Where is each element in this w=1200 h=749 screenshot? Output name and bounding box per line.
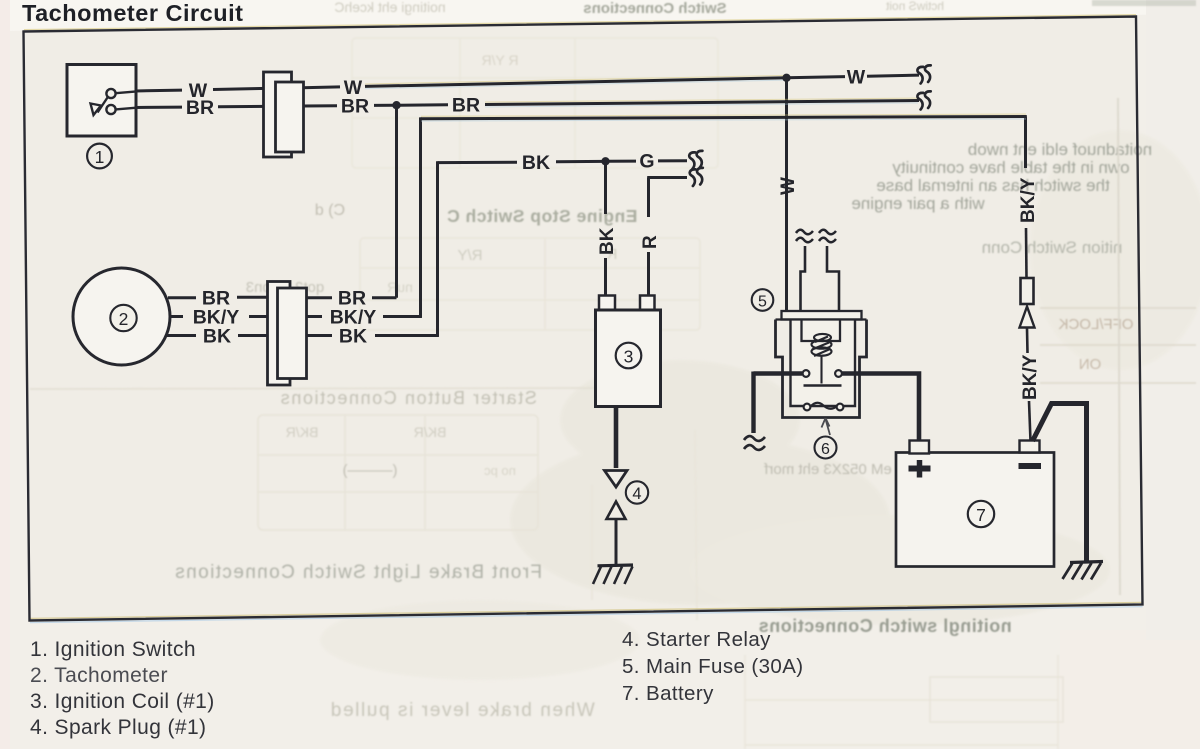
plus symbol <box>909 460 931 478</box>
svg-text:G: G <box>639 151 654 173</box>
ignition switch contacts and lever <box>91 89 136 115</box>
svg-text:W: W <box>778 177 799 195</box>
wire BK vertical riser <box>436 161 439 336</box>
svg-text:no pc: no pc <box>484 463 516 478</box>
svg-text:the switch has an internal bas: the switch has an internal base <box>876 176 1109 195</box>
wire BK horizontal to label <box>438 161 518 164</box>
ground symbol (battery) <box>1063 562 1104 580</box>
wire R stub to break <box>647 176 687 179</box>
wire labels (horizontal) <box>186 67 866 175</box>
svg-text:Engine Stop Switch C: Engine Stop Switch C <box>447 206 638 226</box>
svg-text:4. Spark Plug (#1): 4. Spark Plug (#1) <box>30 716 206 739</box>
svg-text:BK: BK <box>597 227 618 255</box>
wire W: switch to connector <box>135 89 182 93</box>
wire BK tach left <box>165 334 196 337</box>
arrow to circled 6 <box>826 419 831 435</box>
wire BK/Y tach left <box>170 315 183 318</box>
wire BR: label to connector <box>218 105 266 108</box>
wire plug to ground <box>615 519 618 566</box>
fuse on BK/Y line <box>1021 278 1034 304</box>
main fuse leads <box>801 246 840 311</box>
relay right wire (thick) to battery + <box>842 374 919 442</box>
right-side ghost paragraph <box>851 140 1152 213</box>
circled 7 <box>968 501 994 527</box>
wire BR: connector to label <box>302 104 337 107</box>
wire label to fuse <box>1025 228 1028 278</box>
legend right column <box>622 628 804 705</box>
svg-text:4. Starter Relay: 4. Starter Relay <box>622 628 771 651</box>
spark plug arrow (open, down) <box>605 471 628 488</box>
wire W: label to break <box>867 75 919 76</box>
svg-text:4: 4 <box>632 485 641 503</box>
svg-text:BK/R: BK/R <box>286 424 319 440</box>
ground symbol (spark plug) <box>593 565 633 584</box>
break symbol on BR wire <box>917 91 930 109</box>
battery body <box>896 453 1054 567</box>
spark plug arrow (open, up) <box>607 502 626 520</box>
wire BR tach left <box>168 296 196 299</box>
relay inner box <box>791 320 856 407</box>
battery - terminal <box>1020 441 1040 453</box>
svg-text:1. Ignition Switch: 1. Ignition Switch <box>30 638 196 661</box>
svg-text:OFF/LOCK: OFF/LOCK <box>1058 316 1133 333</box>
dark ghost blob <box>758 616 1012 636</box>
EX250 ghost near battery <box>763 461 891 478</box>
relay housing outline <box>776 320 867 418</box>
chromatic fringe on long wires <box>365 75 1026 121</box>
svg-text:7. Battery: 7. Battery <box>622 682 714 705</box>
tach wire labels <box>193 288 377 348</box>
Front Brake Light Switch Connections ghost <box>174 562 542 583</box>
svg-text:R/Y: R/Y <box>457 247 482 264</box>
spark plug lead (thick) <box>614 407 619 469</box>
svg-text:noitingi eht kcehC: noitingi eht kcehC <box>334 0 445 15</box>
ignition coil terminals <box>599 296 655 311</box>
arrow (open, up) on BK/Y line <box>1020 307 1035 328</box>
relay lower contact curve <box>811 403 837 409</box>
svg-text:BR: BR <box>452 95 480 117</box>
tach wires left side <box>165 297 332 335</box>
When brake lever is pulled ghost <box>329 700 595 721</box>
wire BK from tach connector <box>375 334 439 337</box>
break symbol on G wire <box>689 151 702 169</box>
svg-text:R Y/R: R Y/R <box>481 52 518 68</box>
wire G: junction to label <box>608 160 636 163</box>
svg-text:hctiwS noit: hctiwS noit <box>885 0 944 13</box>
wire W: label gap to connector <box>213 88 266 89</box>
wire BK/Y vertical riser <box>419 117 422 317</box>
circled 2 <box>110 305 136 331</box>
wire W: junction to label <box>787 77 846 78</box>
wire BK tach right stub <box>305 334 332 337</box>
svg-text:Tachometer Circuit: Tachometer Circuit <box>22 0 243 26</box>
svg-text:nuR: nuR <box>387 279 413 295</box>
svg-text:BK: BK <box>339 326 367 348</box>
svg-text:own in the table have continui: own in the table have continuity <box>892 158 1130 177</box>
svg-text:BK/Y: BK/Y <box>1018 177 1039 223</box>
junction dot on BK/G line <box>601 157 609 165</box>
main fuse cap plate <box>782 311 862 320</box>
svg-text:with a pair engine: with a pair engine <box>851 194 985 213</box>
svg-text:BK: BK <box>203 326 231 348</box>
svg-text:3. Ignition Coil (#1): 3. Ignition Coil (#1) <box>30 690 215 713</box>
svg-text:BR: BR <box>186 97 214 119</box>
wire BK label to junction <box>556 160 603 163</box>
svg-text:ON: ON <box>1079 356 1102 373</box>
svg-text:noitingl switch Connections: noitingl switch Connections <box>758 616 1012 636</box>
svg-text:2: 2 <box>119 309 129 329</box>
wire W: connector to label <box>302 85 340 89</box>
relay contact bar <box>804 384 842 387</box>
svg-text:nition Switch Conn: nition Switch Conn <box>982 238 1123 257</box>
wire W: long run to junction <box>365 78 787 87</box>
relay contacts upper <box>803 370 810 377</box>
svg-text:6: 6 <box>821 441 830 458</box>
chassis tilde below left wire <box>744 436 765 450</box>
ghost table 2 below it <box>360 238 700 330</box>
ignition switch connections ghost header right <box>982 238 1123 257</box>
svg-text:7: 7 <box>976 505 986 525</box>
wire BK/Y long horizontal run <box>421 117 1027 119</box>
svg-text:BK/R: BK/R <box>414 424 447 440</box>
Starter Button Connections ghost + table <box>279 388 537 408</box>
vertical ghost line (reverse page frame) <box>1118 98 1120 595</box>
ignition switch box <box>67 65 136 137</box>
Engine Stop Switch Connections header ghost <box>447 206 638 226</box>
svg-text:3: 3 <box>624 347 634 367</box>
wire BK/Y tach right stub <box>305 315 322 318</box>
minus symbol <box>1019 463 1042 469</box>
wire label gap to battery minus <box>1029 401 1031 441</box>
break symbol on R wire <box>690 168 703 186</box>
wire BR: switch to label <box>135 106 182 109</box>
rotated wire labels <box>597 177 1041 400</box>
junction dot on W line <box>782 74 790 82</box>
battery + terminal <box>910 441 930 454</box>
break symbol on W wire <box>917 65 930 83</box>
svg-text:noitadnuof eldi eht nwob: noitadnuof eldi eht nwob <box>968 140 1152 159</box>
svg-text:C) d: C) d <box>315 202 345 219</box>
circled 5 <box>752 289 774 311</box>
chromatic fringe on frame <box>24 15 1143 623</box>
connector 1 (ignition switch harness) <box>264 72 304 157</box>
svg-text:5: 5 <box>758 294 767 311</box>
circled 4 <box>626 481 648 503</box>
battery minus wire to ground (thick) <box>1033 404 1087 563</box>
svg-text:W: W <box>847 67 866 89</box>
svg-text:Switch Connections: Switch Connections <box>583 0 726 17</box>
wire BR: label to break <box>485 101 919 105</box>
wire W vertical drop to main fuse <box>785 78 788 312</box>
wire BK/Y drop at right <box>1024 117 1027 169</box>
wire BR horizontal into tach connector <box>372 296 397 299</box>
circled 3 <box>616 343 642 369</box>
main fuse lead tildes (left) <box>796 230 836 243</box>
wire BR tach right stub <box>305 296 332 299</box>
wire arrow down <box>1026 329 1029 354</box>
circled 1 <box>87 144 112 169</box>
fuse element spring <box>812 334 832 384</box>
relay contacts lower <box>804 404 811 411</box>
ignition coil U3 body <box>596 310 661 407</box>
wire BK vertical resume to coil terminal <box>604 258 607 297</box>
svg-text:When brake lever is pulled: When brake lever is pulled <box>329 700 595 721</box>
junction dot on BR line <box>392 101 400 109</box>
svg-text:5. Main Fuse (30A): 5. Main Fuse (30A) <box>622 655 804 678</box>
faint upper-left ghost table <box>352 38 718 168</box>
svg-text:BK/Y: BK/Y <box>1020 354 1041 400</box>
frame border <box>24 17 1143 621</box>
wire BR: label to junction <box>374 104 394 107</box>
legend left column <box>30 638 215 739</box>
svg-text:(———): (———) <box>343 462 398 479</box>
svg-text:Starter Button Connections: Starter Button Connections <box>279 388 537 408</box>
wire G: label to break <box>658 159 687 162</box>
svg-text:1: 1 <box>95 147 105 167</box>
bottom-right ghost table <box>592 430 1063 749</box>
wire R vertical to label <box>647 178 650 218</box>
wire R vertical resume to coil terminal <box>647 252 650 297</box>
wire BR: junction to label <box>399 103 448 106</box>
top edge cut-off ghost fragments <box>334 0 445 15</box>
svg-text:2. Tachometer: 2. Tachometer <box>30 664 168 687</box>
wire BR vertical drop from junction <box>395 105 398 298</box>
fuse chamber <box>802 320 841 342</box>
svg-text:eM 052X3 eht morf: eM 052X3 eht morf <box>763 461 891 478</box>
wire BK/Y from tach connector <box>383 315 422 318</box>
scan mottling <box>320 130 1200 680</box>
svg-text:R: R <box>640 235 661 249</box>
relay left wire (thick) <box>754 372 803 434</box>
circled 6 <box>815 437 837 459</box>
svg-text:Front Brake Light Switch Conne: Front Brake Light Switch Connections <box>174 562 542 583</box>
wire BK vertical to coil <box>604 161 607 214</box>
tachometer circle <box>73 268 170 365</box>
connector 2 (tachometer harness) <box>268 282 307 386</box>
OFF/LOCK ON ghost <box>1040 308 1196 383</box>
svg-text:BK: BK <box>522 152 550 174</box>
svg-text:BR: BR <box>341 96 369 118</box>
